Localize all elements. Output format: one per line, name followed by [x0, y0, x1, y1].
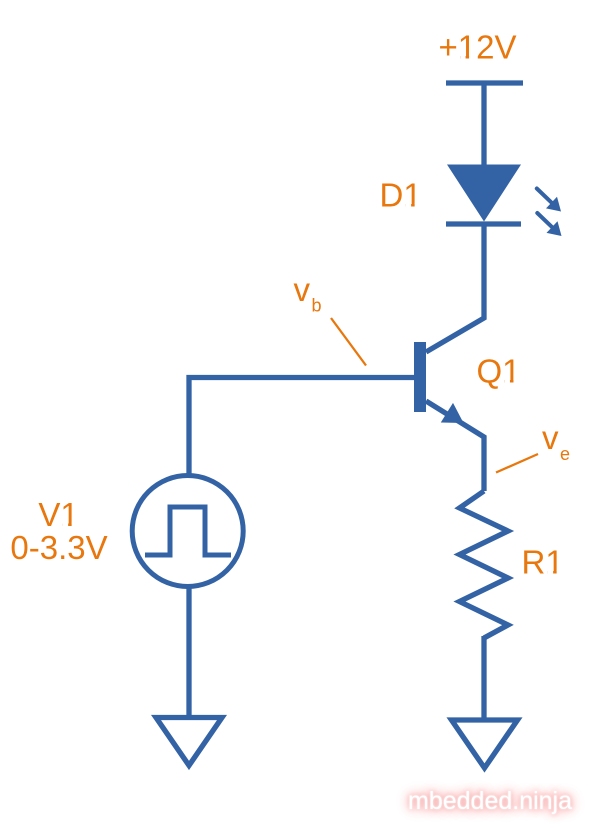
svg-text:V1: V1 [38, 496, 78, 533]
leader line vb [331, 318, 366, 366]
wire D1 cathode to Q1 collector [426, 224, 484, 352]
leader line ve [496, 454, 538, 473]
svg-text:D1: D1 [380, 177, 422, 214]
svg-text:0-3.3V: 0-3.3V [10, 529, 107, 566]
power rail +12V bar [446, 80, 523, 85]
svg-text:R1: R1 [522, 544, 564, 581]
svg-text:v: v [294, 271, 311, 308]
ground GND2 [452, 720, 518, 768]
LED D1 anode triangle [447, 165, 521, 222]
svg-text:v: v [542, 419, 559, 456]
wire base to V1 [189, 378, 414, 477]
resistor R1 [460, 491, 509, 638]
svg-text:b: b [312, 296, 322, 316]
LED D1 cathode bar [446, 221, 521, 226]
wire R1 to ground [481, 636, 486, 720]
LED D1 emission arrow 2 [537, 213, 561, 236]
transistor Q1 base bar [414, 342, 426, 412]
svg-text:+12V: +12V [439, 29, 517, 66]
svg-text:Q1: Q1 [477, 353, 521, 390]
node vb label [294, 271, 322, 316]
ground GND1 [156, 718, 222, 766]
node ve label [542, 419, 570, 464]
source V1 circle [132, 476, 243, 587]
source V1 pulse symbol [145, 507, 231, 555]
LED D1 emission arrow 1 [537, 189, 561, 212]
white patches hiding serif feet of digit 1 glyphs [63, 55, 563, 574]
wire V1 to ground [186, 586, 191, 717]
svg-text:e: e [560, 444, 570, 464]
wire rail to D1 anode [481, 83, 486, 168]
transistor Q1 emitter with arrow [426, 401, 484, 491]
watermark mbedded.ninja [408, 787, 572, 816]
